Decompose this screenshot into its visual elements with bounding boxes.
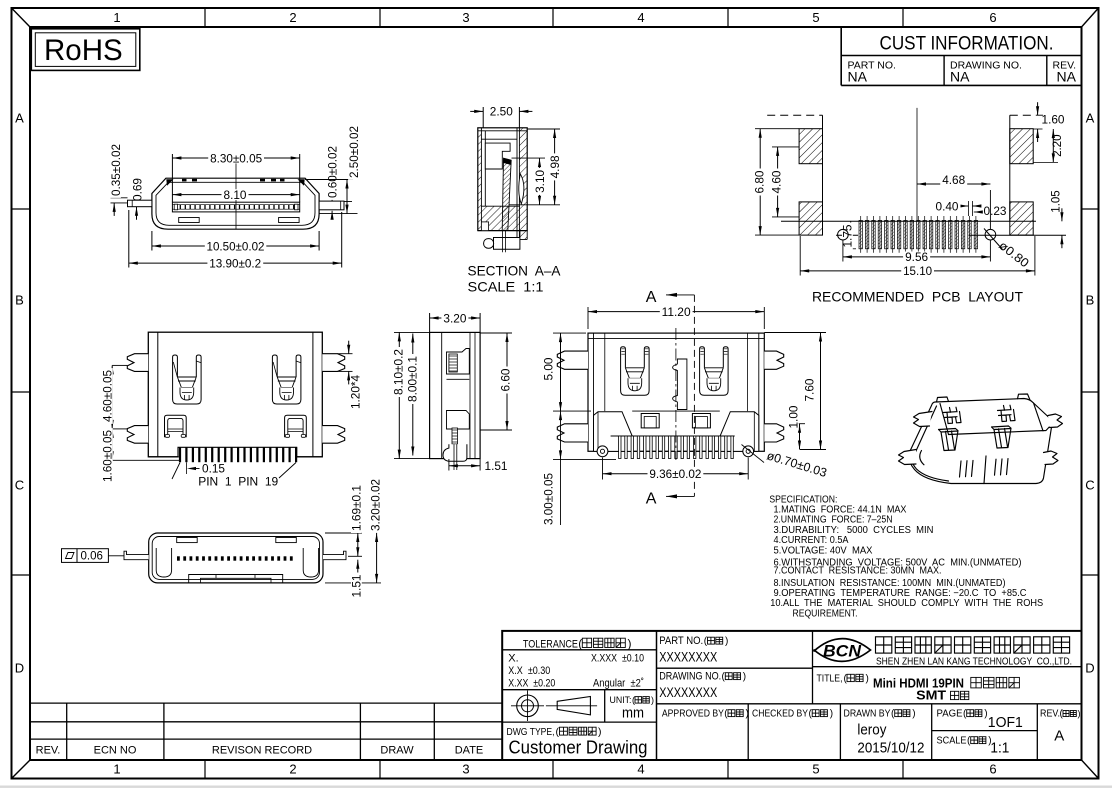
svg-text:): ) (1078, 709, 1081, 719)
bottom view latches (621, 347, 650, 396)
svg-text:3: 3 (462, 10, 469, 25)
svg-text:PAGE: PAGE (937, 708, 963, 720)
svg-text:PIN 1 PIN 19: PIN 1 PIN 19 (198, 475, 278, 489)
iso top/front crease (949, 424, 1053, 435)
section left channel (484, 131, 486, 206)
dim 1.60±0.05 top view (111, 459, 180, 461)
svg-text:0.69: 0.69 (130, 178, 144, 201)
dim 1.00 (793, 423, 805, 425)
svg-text:SMT: SMT (916, 688, 946, 702)
svg-text:13.90±0.2: 13.90±0.2 (209, 256, 261, 270)
dim 1.75 (843, 248, 856, 250)
dim 5.00 (553, 332, 586, 334)
svg-text:3.20±0.02: 3.20±0.02 (369, 479, 383, 531)
svg-text:X.XX ±0.20: X.XX ±0.20 (508, 678, 555, 690)
dim ø0.80 (996, 238, 1032, 270)
BCN logo (814, 639, 871, 662)
svg-text:8.00±0.1: 8.00±0.1 (406, 356, 420, 402)
svg-text:Angular ±2˚: Angular ±2˚ (593, 678, 644, 690)
iso front comb (960, 460, 974, 477)
PIN 1 PIN 19 labels (172, 463, 180, 480)
svg-text:1.20*4: 1.20*4 (349, 375, 363, 409)
svg-text:SCALE 1:1: SCALE 1:1 (468, 279, 544, 295)
svg-text:2.50±0.02: 2.50±0.02 (347, 126, 361, 178)
iso back edge bumps (937, 397, 949, 402)
svg-text:C: C (15, 478, 24, 493)
svg-text:X.X ±0.30: X.X ±0.30 (508, 665, 550, 677)
svg-text:DWG TYPE,: DWG TYPE, (507, 726, 555, 738)
svg-text:PART NO.: PART NO. (659, 635, 703, 647)
front view right side pin (319, 201, 344, 210)
svg-text:4: 4 (637, 762, 644, 777)
svg-text:X.XXX ±0.10: X.XXX ±0.10 (591, 653, 644, 665)
dim 4.60±0.05 top view (112, 364, 127, 366)
dim 0.60±0.02 (344, 201, 352, 203)
svg-text:CHECKED BY: CHECKED BY (752, 708, 808, 720)
svg-text:4.68: 4.68 (942, 173, 965, 187)
dim 8.10±0.2 side (394, 331, 430, 333)
VIEW: isometric 3D view (right middle) (899, 394, 1063, 484)
dim 15.10 (799, 236, 801, 276)
svg-text:2.20: 2.20 (1052, 135, 1064, 157)
svg-text:): ) (725, 636, 728, 647)
svg-text:SHEN ZHEN LAN KANG TECHNOLOGY: SHEN ZHEN LAN KANG TECHNOLOGY CO.,LTD. (876, 657, 1072, 668)
svg-text:SECTION A–A: SECTION A–A (468, 263, 562, 279)
svg-text:C: C (1085, 478, 1094, 493)
svg-text:0.40: 0.40 (936, 199, 959, 213)
svg-text:4: 4 (637, 10, 644, 25)
svg-text:RECOMMENDED PCB LAYOUT: RECOMMENDED PCB LAYOUT (812, 289, 1023, 305)
svg-text:DRAWN BY: DRAWN BY (844, 708, 891, 720)
svg-text:2.50: 2.50 (490, 105, 513, 119)
svg-text:D: D (15, 661, 24, 676)
bottom view body bottom line (594, 450, 759, 452)
svg-text:4.98: 4.98 (548, 155, 562, 178)
svg-text:UNIT:: UNIT: (610, 695, 632, 705)
bottom view mounting posts (597, 446, 608, 457)
front view centerline (235, 155, 237, 229)
svg-text:1OF1: 1OF1 (988, 714, 1023, 731)
dim 13.90±0.2 (128, 210, 130, 268)
part no / drawing no (657, 667, 813, 669)
CUST INFORMATION table (840, 27, 842, 85)
pcb centerline (916, 108, 918, 221)
svg-text:8.30±0.05: 8.30±0.05 (210, 151, 262, 165)
svg-text:1.00: 1.00 (787, 405, 801, 428)
svg-text:): ) (651, 695, 654, 705)
svg-text:1: 1 (113, 762, 120, 777)
projection symbol (517, 695, 539, 717)
svg-text:0.60±0.02: 0.60±0.02 (325, 146, 339, 198)
top view left tabs (127, 354, 148, 372)
dim ø0.70±0.03 (765, 448, 829, 480)
dim 0.69 (136, 187, 138, 200)
bottom view pin shoulder line (611, 435, 735, 437)
bottom view pins (619, 436, 621, 459)
top view right tabs (322, 354, 344, 372)
svg-text:5.VOLTAGE: 40V MAX: 5.VOLTAGE: 40V MAX (774, 545, 873, 556)
svg-text:NA: NA (1057, 69, 1077, 85)
bottom view body (588, 333, 764, 451)
pcb mounting holes (838, 229, 849, 240)
svg-text:4.60±0.05: 4.60±0.05 (101, 370, 115, 422)
svg-text:): ) (628, 636, 632, 650)
svg-text:5: 5 (812, 762, 819, 777)
svg-text:SCALE: SCALE (937, 735, 967, 747)
svg-text:): ) (743, 672, 746, 683)
svg-text:8.10±0.2: 8.10±0.2 (392, 349, 406, 395)
pcb left outline dashed (767, 114, 822, 116)
dim 0.40 (968, 201, 970, 216)
dim 8.10 (172, 194, 299, 196)
front view shell outline (152, 178, 319, 229)
iso mouth arcs (912, 452, 948, 481)
profile body (149, 533, 323, 583)
profile left tab (124, 551, 149, 560)
dim 1.60 (1033, 128, 1042, 130)
svg-text:3.00±0.05: 3.00±0.05 (542, 473, 556, 525)
svg-text:RoHS: RoHS (44, 34, 123, 67)
revision record table (30, 702, 502, 704)
dim 3.10 (512, 157, 546, 159)
svg-text:1:1: 1:1 (990, 740, 1009, 757)
svg-text:BCN: BCN (823, 642, 862, 661)
iso right tabs (1048, 414, 1063, 428)
dim 3.00±0.05 (553, 458, 616, 460)
svg-text:): ) (598, 726, 602, 738)
svg-text:DRAW: DRAW (380, 745, 414, 757)
pcb left pads hatched (799, 129, 822, 164)
svg-text:2: 2 (289, 762, 296, 777)
dim 1.51 side (448, 459, 450, 471)
dim 9.56 (842, 241, 844, 262)
top view body (148, 332, 322, 457)
section shield hook (white) (485, 143, 510, 169)
iso body outline (909, 399, 1052, 484)
svg-text:A: A (15, 111, 24, 126)
svg-text:1.60: 1.60 (1042, 112, 1065, 126)
svg-text:1.05: 1.05 (1051, 190, 1063, 212)
svg-text:CUST INFORMATION.: CUST INFORMATION. (880, 34, 1054, 55)
profile inner posts (156, 548, 171, 577)
side view body (430, 332, 481, 458)
front view left side pin (128, 200, 152, 207)
svg-text:TITLE,: TITLE, (817, 673, 843, 685)
svg-text:0.23: 0.23 (984, 204, 1007, 218)
svg-text:3: 3 (462, 762, 469, 777)
section contact lens (white leaf) (519, 174, 524, 204)
dim 8.30±0.05 (171, 154, 173, 202)
svg-text:6: 6 (989, 762, 996, 777)
dim 1.69±0.1 profile (325, 532, 362, 534)
svg-text:REVISON RECORD: REVISON RECORD (212, 745, 312, 757)
dim 0.23 (974, 211, 981, 213)
pcb right pads hatched (1010, 129, 1033, 164)
svg-text:1.60±0.05: 1.60±0.05 (101, 430, 115, 482)
svg-text:XXXXXXXX: XXXXXXXX (659, 684, 718, 700)
section right wall (516, 128, 518, 240)
svg-text:8.10: 8.10 (224, 188, 247, 202)
svg-text:2: 2 (289, 10, 296, 25)
dim 4.60 pcb (772, 146, 799, 148)
dim 0.15 (186, 462, 188, 474)
iso center split (984, 456, 986, 484)
svg-text:0.06: 0.06 (81, 551, 103, 563)
svg-text:A: A (1086, 111, 1095, 126)
svg-text:REV.: REV. (36, 745, 61, 757)
svg-text:leroy: leroy (857, 722, 886, 739)
svg-text:DRAWING NO.: DRAWING NO. (659, 671, 721, 683)
svg-text:4.60: 4.60 (770, 170, 784, 193)
dim 4.68 (989, 190, 991, 229)
TITLE BLOCK (502, 631, 1081, 760)
top view pins comb (179, 447, 181, 462)
svg-text:1.51: 1.51 (350, 574, 364, 597)
svg-text:(: ( (578, 636, 582, 650)
page bottom gray edge (0, 786, 1112, 788)
pcb baselines (781, 220, 1036, 222)
section body outline (478, 128, 527, 231)
profile right tab (323, 551, 346, 560)
dim 1.05 (1061, 208, 1063, 221)
svg-text:3.10: 3.10 (533, 170, 547, 193)
front view top edge marks (182, 179, 187, 182)
svg-text:NA: NA (950, 69, 970, 85)
svg-text:): ) (866, 674, 869, 685)
front view tongue with pins (172, 202, 299, 212)
iso left wall line (916, 404, 949, 453)
dim 6.80 (755, 128, 799, 130)
dim 0.35±0.02 (111, 197, 128, 199)
RoHS box (31, 29, 140, 71)
dim 7.60 (764, 332, 826, 334)
side view lower latch (447, 411, 470, 430)
bottom view right tabs (764, 351, 783, 369)
svg-text:NA: NA (848, 69, 868, 85)
section bottom block hatch (481, 206, 520, 230)
bottom view corner blocks (594, 412, 633, 452)
dim 8.00±0.1 side (412, 334, 414, 456)
svg-text:Customer Drawing: Customer Drawing (509, 738, 648, 758)
svg-text:1: 1 (113, 10, 120, 25)
svg-text:0.15: 0.15 (202, 462, 225, 476)
svg-text:9.56: 9.56 (905, 250, 928, 264)
section center pin (hatched, slanted) (502, 158, 511, 230)
dim 9.36±0.02 (602, 458, 604, 480)
section foot (494, 231, 520, 250)
dim 10.50±0.02 (151, 231, 153, 251)
top view bottom step with pins (179, 455, 296, 458)
svg-text:(: ( (556, 726, 560, 738)
svg-text:7.CONTACT RESISTANCE: 30MN M: 7.CONTACT RESISTANCE: 30MN MAX. (774, 565, 942, 576)
signature row (747, 704, 749, 760)
svg-text:A: A (646, 491, 657, 508)
latch symbol instances (173, 355, 202, 404)
svg-text:ECN NO: ECN NO (94, 745, 137, 757)
svg-text:7.60: 7.60 (803, 378, 817, 401)
tolerance box (502, 649, 656, 651)
profile top recesses (177, 538, 198, 543)
pcb pin pads (860, 216, 862, 253)
svg-text:1.51: 1.51 (485, 459, 508, 473)
svg-text:3.20: 3.20 (443, 311, 466, 325)
svg-text:10.50±0.02: 10.50±0.02 (207, 239, 265, 253)
dim 3.20 side (429, 313, 431, 332)
dim 1.20*4 (338, 353, 353, 355)
clip symbol instances (165, 415, 187, 437)
svg-text:A: A (1054, 728, 1064, 745)
svg-text:): ) (746, 709, 749, 720)
side view foot (443, 444, 467, 461)
company block (813, 666, 1082, 668)
svg-text:6: 6 (989, 10, 996, 25)
svg-text:REQUIREMENT.: REQUIREMENT. (793, 609, 858, 620)
iso latch cutouts lower row (939, 429, 959, 451)
dim 2.50 section (482, 107, 484, 128)
svg-text:11.20: 11.20 (662, 305, 691, 319)
dim 3.20±0.02 profile (325, 582, 381, 584)
svg-text:2015/10/12: 2015/10/12 (857, 740, 924, 757)
svg-text:5.00: 5.00 (542, 357, 556, 380)
svg-text:TOLERANCE: TOLERANCE (523, 638, 578, 650)
svg-text:XXXXXXXX: XXXXXXXX (659, 649, 718, 665)
iso left tabs (914, 412, 933, 427)
svg-text:1.69±0.1: 1.69±0.1 (350, 485, 364, 531)
svg-text:9.36±0.02: 9.36±0.02 (649, 467, 701, 481)
svg-text:): ) (830, 709, 833, 720)
dim 1.51 profile (357, 560, 359, 583)
front view bottom recesses (179, 218, 200, 223)
svg-text:B: B (1086, 293, 1095, 308)
svg-text:15.10: 15.10 (903, 264, 932, 278)
svg-text:6.80: 6.80 (753, 170, 767, 193)
iso latch cutouts upper row (944, 407, 962, 423)
section pin tail (502, 231, 504, 253)
flatness callout (62, 549, 109, 563)
svg-text:5: 5 (812, 10, 819, 25)
dim 2.20 (1033, 161, 1058, 163)
dim 4.98 (527, 128, 560, 130)
bottom view left tabs (557, 351, 588, 369)
svg-text:6.60: 6.60 (499, 368, 513, 391)
section left wall hatch (478, 131, 482, 231)
svg-text:A: A (646, 289, 657, 306)
dim 11.20 (587, 307, 589, 329)
bottom view center tongue (673, 359, 687, 410)
svg-text:DATE: DATE (455, 745, 484, 757)
dim 2.50±0.02 (305, 179, 353, 181)
section line A-A (675, 328, 677, 460)
bottom view small recesses (641, 414, 659, 428)
svg-text:0.35±0.02: 0.35±0.02 (109, 144, 123, 196)
svg-text:B: B (15, 293, 24, 308)
svg-text:D: D (1085, 661, 1094, 676)
svg-text:(: ( (632, 695, 635, 705)
pcb right outline dashed (1010, 114, 1036, 116)
svg-text:mm: mm (622, 705, 644, 722)
svg-text:X.: X. (508, 653, 518, 665)
profile bottom tongue (189, 575, 283, 583)
side view upper latch (447, 349, 470, 375)
svg-text:REV.: REV. (1040, 708, 1060, 720)
svg-text:): ) (912, 709, 915, 720)
svg-text:APPROVED BY: APPROVED BY (662, 708, 724, 720)
profile pin dots (177, 556, 180, 560)
dim 6.60 side (480, 332, 512, 334)
